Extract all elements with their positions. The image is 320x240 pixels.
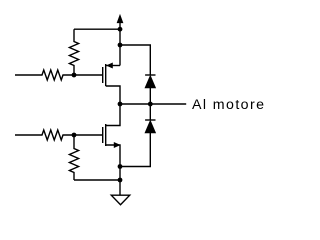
node source junction (118, 164, 123, 169)
transistor Q1 channel bar (105, 64, 107, 86)
transistor Q2 source lead (106, 145, 120, 167)
wire pull-down to ground rail (74, 179, 120, 181)
wire supply to diode column (120, 45, 150, 75)
supply V+ arrow (117, 15, 123, 23)
node ground junction (118, 178, 123, 183)
wire D2 anode to bottom rail (120, 133, 150, 167)
diode D2 cathode bar (145, 119, 155, 121)
transistor Q1 source lead (106, 65, 120, 67)
ground (111, 195, 129, 205)
wire supply rail (119, 23, 121, 66)
resistor R4 pull-down (69, 135, 78, 180)
node output junction at diodes (148, 102, 153, 107)
wire D1 anode to output node (149, 88, 151, 121)
transistor Q2 gate bar (102, 127, 104, 143)
node A gate junction (72, 73, 77, 78)
wire supply to pull-up resistor top (74, 28, 120, 30)
diode D2 body (145, 121, 155, 133)
node supply-to-diode junction (118, 43, 123, 48)
svg-text:Al motore: Al motore (192, 97, 264, 113)
transistor Q2 drain lead (106, 104, 120, 126)
wire output row (120, 103, 186, 105)
resistor R2 pull-up (69, 29, 78, 75)
transistor Q2 source arrow (114, 143, 119, 148)
wire ground stem (119, 167, 121, 196)
transistor Q1 gate bar (102, 67, 104, 83)
wire input B with resistor R3 series (15, 130, 103, 140)
node B gate junction (72, 133, 77, 138)
transistor Q1 drain lead (106, 86, 120, 104)
diode D1 cathode bar (145, 74, 155, 76)
diode D1 body (145, 76, 155, 88)
node output junction at rail (118, 102, 123, 107)
wire input A with resistor R1 series (15, 70, 103, 80)
node supply-to-R2 junction (118, 27, 123, 32)
transistor Q1 source arrow (107, 63, 112, 68)
transistor Q2 channel bar (105, 124, 107, 146)
